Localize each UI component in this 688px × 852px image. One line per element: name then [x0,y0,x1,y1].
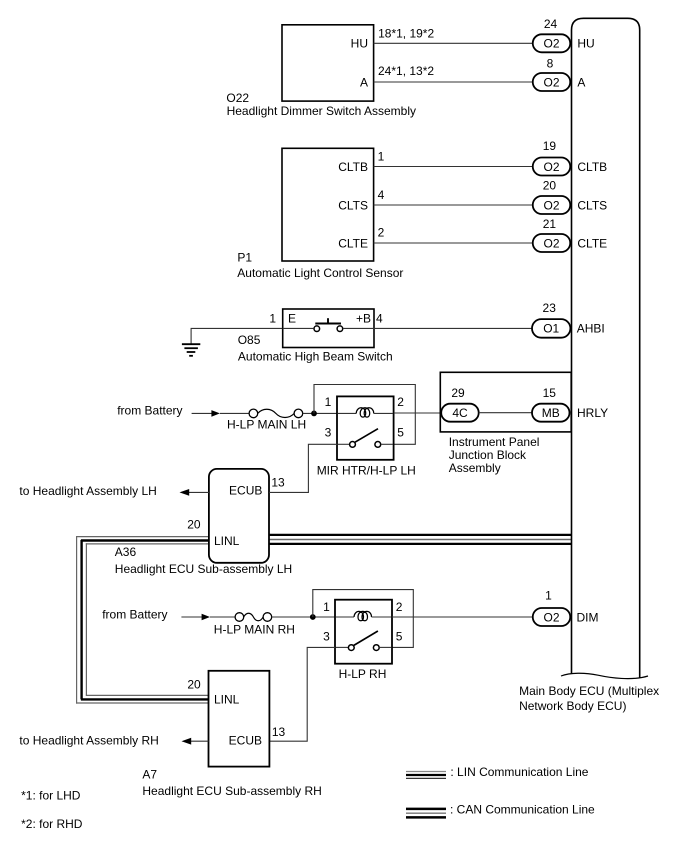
connector O2 pin 19 CLTB [533,139,607,175]
svg-text:A36: A36 [115,545,137,559]
svg-text:3: 3 [323,629,330,643]
svg-text:CLTS: CLTS [338,198,368,212]
svg-text:21: 21 [543,217,557,231]
svg-text:O2: O2 [543,198,559,212]
svg-text:1: 1 [545,588,552,602]
svg-text:23: 23 [543,301,557,315]
svg-text:to Headlight Assembly LH: to Headlight Assembly LH [19,484,156,498]
svg-text:Headlight ECU Sub-assembly LH: Headlight ECU Sub-assembly LH [115,562,292,576]
wire bypass to relay pin 5 LH [314,385,415,445]
junction node battery LH [311,411,317,417]
svg-text:18*1, 19*2: 18*1, 19*2 [378,26,434,40]
Main Body ECU U1 outline [519,18,659,713]
connector 4C pin 29 [441,386,479,422]
LIN line vertical segment [77,536,87,704]
connector O2 pin 1 DIM [533,588,599,626]
svg-text:29: 29 [451,386,465,400]
CAN line A36 to Main Body ECU segment [269,535,572,544]
svg-text:HRLY: HRLY [577,406,608,420]
wire relay pin 2 to 4C [394,412,442,414]
relay contact RH [336,631,391,650]
svg-text:CLTE: CLTE [338,236,368,250]
svg-text:: CAN Communication Line: : CAN Communication Line [450,803,595,817]
svg-text:O2: O2 [543,37,559,51]
svg-text:from Battery: from Battery [117,404,182,418]
arrow to Headlight Assembly RH [19,734,208,748]
connector O1 pin 23 AHBI [532,301,605,338]
svg-text:AHBI: AHBI [577,321,605,335]
svg-text:Automatic High Beam Switch: Automatic High Beam Switch [238,349,393,363]
svg-text:1: 1 [378,149,385,163]
svg-text:Junction Block: Junction Block [449,448,527,462]
connector O2 pin 8 A [533,56,586,91]
relay contact LH [338,429,393,448]
svg-text:O2: O2 [543,160,559,174]
box Instrument Panel Junction Block Assembly [440,372,571,475]
svg-text:24*1, 13*2: 24*1, 13*2 [378,64,434,78]
wire relay pin 3 RH to A7 ECUB pin 13 [269,647,335,741]
svg-text:LINL: LINL [214,534,240,548]
svg-text:2: 2 [396,600,403,614]
svg-text:ECUB: ECUB [229,484,262,498]
svg-text:H-LP MAIN LH: H-LP MAIN LH [227,417,306,431]
svg-text:*1: for LHD: *1: for LHD [21,789,81,803]
svg-text:: LIN Communication Line: : LIN Communication Line [450,765,588,779]
relay MIR HTR/H-LP LH [317,395,416,478]
svg-text:ECUB: ECUB [229,734,262,748]
box A7 Headlight ECU Sub-assembly RH [142,671,321,798]
svg-text:CLTE: CLTE [577,236,607,250]
svg-text:Main Body ECU (Multiplex: Main Body ECU (Multiplex [519,684,659,698]
svg-text:A: A [577,75,585,89]
wire P1 CLTS pin 4 [374,188,533,205]
box P1 Automatic Light Control Sensor [237,148,403,280]
svg-text:5: 5 [397,426,404,440]
connector O2 pin 20 CLTS [533,178,607,214]
wire O22 A to connector [374,64,533,82]
svg-text:E: E [288,312,296,326]
svg-text:to Headlight Assembly RH: to Headlight Assembly RH [19,734,158,748]
svg-text:1: 1 [323,600,330,614]
svg-text:2: 2 [378,225,385,239]
svg-text:24: 24 [544,17,558,31]
wire A36 ECUB pin 13 to relay pin 3 [269,444,337,492]
LIN line bottom segment to A7 LINL [76,695,209,703]
box A36 Headlight ECU Sub-assembly LH [115,469,292,576]
svg-text:HU: HU [577,37,594,51]
svg-text:13: 13 [271,475,285,489]
svg-text:CLTB: CLTB [577,160,607,174]
wire P1 CLTB pin 1 [374,149,533,166]
svg-text:O1: O1 [543,322,559,336]
svg-text:O85: O85 [238,333,261,347]
fuse H-LP MAIN RH [214,613,335,637]
svg-text:Headlight ECU Sub-assembly RH: Headlight ECU Sub-assembly RH [142,784,321,798]
svg-text:5: 5 [396,629,403,643]
arrow to Headlight Assembly LH [19,484,209,498]
svg-text:H-LP RH: H-LP RH [339,667,387,681]
svg-text:O22: O22 [226,91,249,105]
svg-text:P1: P1 [237,251,252,265]
svg-text:+B: +B [356,312,371,326]
svg-text:A: A [360,75,368,89]
relay H-LP RH [323,600,403,682]
svg-text:4: 4 [376,312,383,326]
svg-text:DIM: DIM [577,610,599,624]
svg-text:1: 1 [269,312,276,326]
relay coil LH [338,408,393,417]
svg-text:Assembly: Assembly [449,461,501,475]
wire O85 to connector O1 [374,327,533,329]
svg-text:13: 13 [272,725,286,739]
svg-text:Network Body ECU): Network Body ECU) [519,699,626,713]
svg-text:O2: O2 [543,236,559,250]
svg-text:H-LP MAIN RH: H-LP MAIN RH [214,622,295,636]
LIN line A36 LINL left segment [76,537,209,544]
svg-text:20: 20 [187,677,201,691]
svg-text:from Battery: from Battery [102,607,167,621]
svg-text:*2: for RHD: *2: for RHD [21,817,83,831]
legend LIN Communication Line [406,765,589,779]
svg-text:15: 15 [543,386,557,400]
box O22 Headlight Dimmer Switch Assembly [226,25,416,118]
svg-text:8: 8 [547,56,554,70]
connector O2 pin 21 CLTE [533,217,607,252]
svg-text:Headlight Dimmer Switch Assemb: Headlight Dimmer Switch Assembly [227,104,416,118]
wire bypass to relay pin 5 RH [313,590,414,648]
wire 4C to MB [479,412,532,414]
from Battery RH feed [102,607,235,621]
svg-text:MIR HTR/H-LP LH: MIR HTR/H-LP LH [317,463,416,477]
svg-text:O2: O2 [543,610,559,624]
wire O22 HU to connector [374,26,533,43]
svg-text:A7: A7 [142,767,157,781]
svg-text:2: 2 [397,395,404,409]
relay coil RH [336,611,391,620]
svg-text:20: 20 [543,178,557,192]
connector MB pin 15 HRLY [532,386,608,422]
junction node battery RH [310,614,316,620]
svg-text:20: 20 [187,517,201,531]
from Battery LH feed [117,404,249,418]
svg-text:O2: O2 [543,75,559,89]
wire relay pin 2 to DIM connector [392,616,533,618]
svg-text:19: 19 [543,139,557,153]
box O85 Automatic High Beam Switch [238,309,393,363]
svg-text:1: 1 [325,395,332,409]
switch contacts in O85 [283,318,374,331]
svg-text:3: 3 [325,426,332,440]
svg-text:4C: 4C [452,406,468,420]
fuse H-LP MAIN LH [227,409,337,431]
svg-text:LINL: LINL [214,693,240,707]
svg-text:MB: MB [542,406,560,420]
svg-text:CLTB: CLTB [338,160,368,174]
svg-text:CLTS: CLTS [577,198,607,212]
connector O2 pin 24 HU [533,17,595,52]
svg-text:4: 4 [378,188,385,202]
svg-text:HU: HU [351,37,368,51]
ground for O85 [182,328,283,355]
legend CAN Communication Line [406,803,595,818]
wire P1 CLTE pin 2 [374,225,533,243]
svg-text:Automatic Light Control Sensor: Automatic Light Control Sensor [237,266,403,280]
